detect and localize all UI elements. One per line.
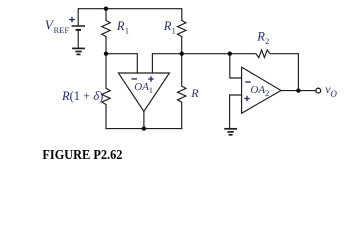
resistor R2 — [230, 50, 299, 58]
node C dot — [228, 52, 232, 56]
svg-text:R: R — [190, 86, 199, 100]
wire R1b to node B — [181, 37, 183, 54]
label R2 — [256, 30, 269, 46]
wire bottom rail — [106, 128, 182, 130]
wire OA1 output to bottom rail — [143, 112, 145, 129]
op-amp U1 minus sign — [132, 78, 138, 80]
label OA1 — [134, 81, 153, 95]
ground (battery) — [72, 48, 85, 54]
node dot top of R1a — [104, 7, 108, 11]
node A dot — [104, 52, 108, 56]
svg-text:1: 1 — [125, 26, 129, 36]
wire node A to OA1 inverting input — [106, 54, 137, 73]
svg-text:FIGURE P2.62: FIGURE P2.62 — [42, 146, 122, 162]
wire node B to node C — [182, 53, 230, 55]
resistor R(1+delta) — [102, 54, 110, 129]
wire OA2 noninverting input to ground — [230, 95, 242, 128]
ground (OA2) — [224, 129, 237, 135]
output terminal circle — [316, 88, 321, 93]
op-amp U1 triangle — [118, 73, 169, 112]
label OA2 — [250, 84, 269, 98]
svg-text:OA: OA — [134, 81, 149, 93]
label VREF — [45, 18, 70, 35]
wire R1a to node A — [105, 37, 107, 54]
op-amp U2 triangle — [242, 67, 281, 113]
wire top rail — [78, 9, 182, 26]
svg-text:2: 2 — [265, 88, 269, 98]
svg-text:REF: REF — [54, 25, 70, 35]
wire R2 feedback down — [297, 54, 299, 91]
label R1 left — [116, 19, 129, 35]
node B dot — [180, 52, 184, 56]
resistor R1 (right) — [178, 20, 186, 36]
svg-text:O: O — [330, 89, 337, 99]
svg-text:R: R — [116, 19, 125, 33]
label vO — [325, 82, 337, 99]
svg-text:1: 1 — [149, 85, 153, 95]
wire node B to OA1 noninverting input — [152, 54, 181, 73]
resistor R — [178, 54, 186, 129]
wire R1a column top — [105, 9, 107, 21]
svg-text:2: 2 — [265, 36, 269, 46]
op-amp U2 minus sign — [245, 81, 251, 83]
op-amp U2 plus sign — [244, 96, 249, 101]
wire node C to OA2 inverting input — [230, 54, 242, 78]
svg-text:R: R — [163, 19, 172, 33]
svg-text:R(1 + δ): R(1 + δ) — [61, 89, 103, 103]
op-amp U1 plus sign — [148, 76, 153, 81]
resistor R1 (left) — [102, 20, 110, 36]
wire OA2 output — [281, 90, 316, 92]
node dot output junction — [296, 88, 300, 92]
label R1 right — [163, 19, 176, 35]
svg-text:1: 1 — [172, 26, 176, 36]
node dot OA1 output — [142, 126, 146, 130]
svg-text:OA: OA — [250, 84, 265, 96]
battery + sign — [69, 17, 75, 23]
svg-text:R: R — [256, 30, 265, 44]
battery VREF plates — [72, 26, 85, 48]
